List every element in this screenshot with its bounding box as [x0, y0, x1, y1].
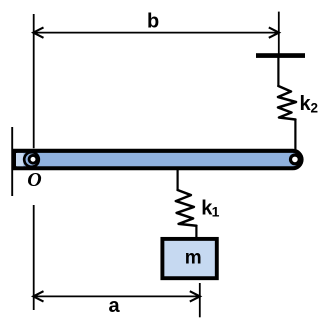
pin at O: [28, 154, 39, 165]
arrowhead right of dimension a: [190, 291, 200, 301]
wire from spring k2 down to beam right end: [294, 120, 296, 151]
pivot circle at O: [24, 152, 39, 167]
arrowhead right of dimension b: [269, 27, 279, 37]
spring k1: [176, 190, 197, 226]
wire from support bar down to spring k2: [277, 57, 279, 87]
wire from beam down to spring k1: [177, 169, 179, 191]
dimension line b: [34, 32, 279, 34]
lighter plate at beam left end: [16, 153, 24, 166]
svg-text:1: 1: [212, 204, 220, 220]
wire: dimension b right extension line (vertical above support): [278, 12, 280, 54]
svg-text:O: O: [27, 169, 41, 191]
wire: dimension b left extension line (vertical above pivot O): [33, 14, 35, 148]
dimension line a: [34, 295, 200, 297]
arrowhead left of dimension a: [33, 291, 43, 301]
wire: dimension a left extension line (below pivot O): [33, 205, 35, 310]
fixed support bar (anchor of spring k2): [256, 53, 305, 58]
pin at beam right end: [289, 153, 301, 165]
beam (lever, pinned at O): [15, 151, 302, 168]
svg-text:b: b: [147, 11, 159, 33]
wire from spring k1 down to mass: [195, 226, 197, 239]
spring k2: [278, 86, 296, 120]
svg-text:a: a: [109, 295, 121, 317]
wall support line at left: [11, 127, 13, 196]
arrowhead left of dimension b: [33, 27, 43, 37]
svg-text:m: m: [185, 248, 202, 269]
wire: dimension a right extension line (below mass): [199, 283, 201, 317]
svg-text:2: 2: [311, 100, 319, 115]
mass m box: [162, 239, 216, 278]
